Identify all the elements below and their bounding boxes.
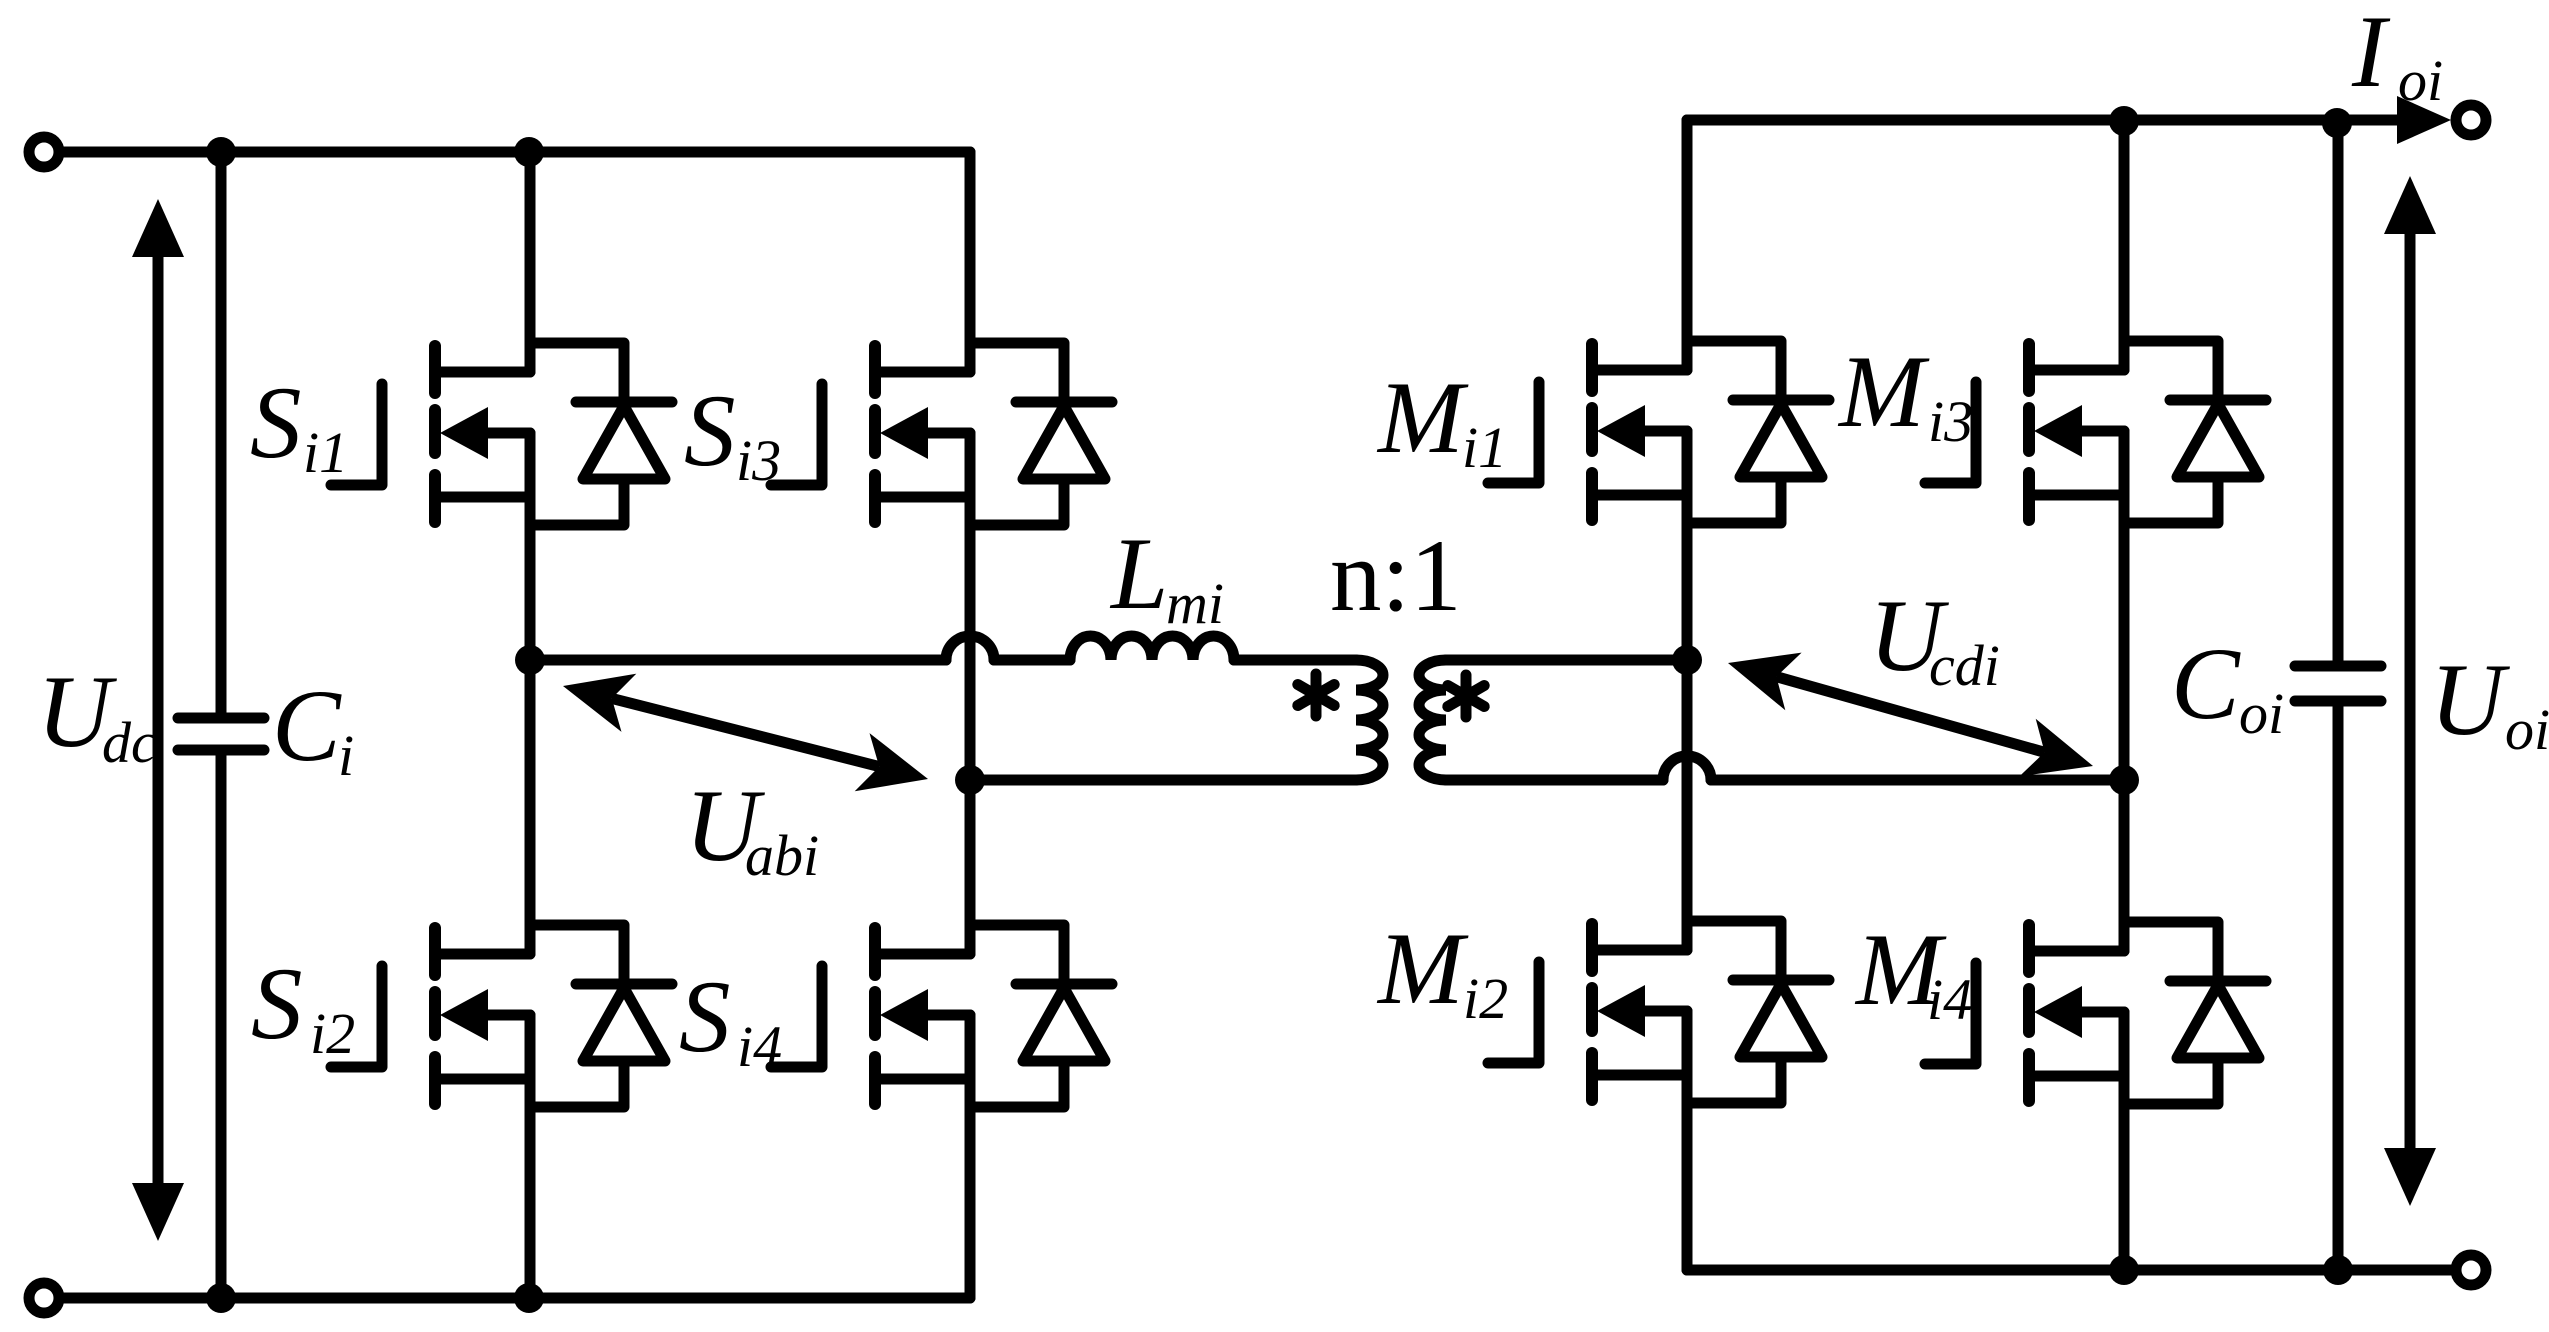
transistor M_i2 (N-MOSFET with body diode)	[1488, 921, 1829, 1103]
svg-text:oi: oi	[2398, 48, 2443, 113]
node junction dot bottom rail / Ci column	[206, 1283, 236, 1313]
transistor S_i3 (N-MOSFET with body diode)	[771, 343, 1112, 525]
label L_mi	[1109, 517, 1224, 636]
wire top rail right	[1687, 115, 2397, 126]
svg-text:oi: oi	[2505, 697, 2549, 762]
transistor M_i1 (N-MOSFET with body diode)	[1488, 341, 1829, 523]
transistor S_i1 (N-MOSFET with body diode)	[331, 343, 672, 525]
svg-text:L: L	[1109, 517, 1168, 631]
svg-text:S: S	[250, 366, 302, 480]
svg-text:mi: mi	[1166, 571, 1224, 636]
transformer primary winding	[1356, 660, 1383, 780]
arrow U_dc voltage (double-headed)	[153, 253, 164, 1187]
transformer primary polarity dot (*)	[1298, 674, 1334, 716]
label M_i2	[1376, 912, 1508, 1031]
svg-text:I: I	[2351, 0, 2391, 109]
inductor L_mi	[1070, 636, 1234, 660]
transistor S_i2 (N-MOSFET with body diode)	[331, 925, 672, 1107]
capacitor C_i	[216, 152, 227, 713]
capacitor C_oi	[2333, 120, 2344, 661]
arrow U_abi voltage (double-headed diagonal)	[563, 674, 636, 732]
node junction dot top rail / C_oi column	[2322, 108, 2352, 138]
node junction dot top rail / leg M_i3	[2109, 106, 2139, 136]
wire leg 2 right bridge (x=2124)	[2119, 120, 2130, 370]
wire bottom rail right	[1687, 1265, 2452, 1276]
label U_dc	[37, 655, 157, 775]
output terminal top-right	[2456, 105, 2486, 135]
wire hop over right leg 1	[1663, 756, 1711, 780]
svg-text:oi: oi	[2239, 681, 2284, 746]
node junction dot bottom rail / leg S_i2	[514, 1283, 544, 1313]
wire node B to transformer primary bottom	[970, 775, 1356, 786]
label C_i	[272, 669, 354, 788]
svg-text:i: i	[338, 723, 354, 788]
label U_oi	[2430, 643, 2549, 762]
svg-text:M: M	[1376, 912, 1469, 1026]
wire transformer secondary top to node c	[1446, 655, 1687, 666]
wire secondary bottom to node d (hops over leg 1)	[1446, 775, 1663, 786]
node A (midpoint leg 1)	[515, 645, 545, 675]
svg-text:S: S	[684, 374, 736, 488]
label S_i1	[250, 366, 348, 485]
node junction dot top rail / Ci column	[206, 137, 236, 167]
label I_oi	[2351, 0, 2443, 113]
svg-text:cdi: cdi	[1929, 633, 2000, 698]
arrow I_oi output current	[2397, 96, 2451, 144]
svg-text:U: U	[2430, 643, 2510, 757]
svg-text:i1: i1	[303, 420, 348, 485]
transistor S_i4 (N-MOSFET with body diode)	[771, 925, 1112, 1107]
node junction dot top rail / leg S_i1	[514, 137, 544, 167]
svg-text:C: C	[272, 669, 342, 783]
svg-text:i4: i4	[1927, 967, 1972, 1032]
wire leg 1 right bridge (x=1687)	[1682, 120, 1693, 370]
node d (midpoint right leg 2)	[2109, 765, 2139, 795]
arrow U_oi voltage (double-headed)	[2405, 230, 2416, 1152]
wire leg 1 left bridge (x=530)	[525, 152, 536, 372]
wire hop over leg 2	[946, 636, 994, 660]
svg-text:i4: i4	[737, 1014, 782, 1079]
label M_i4	[1854, 913, 1972, 1032]
input terminal bottom-left	[29, 1283, 59, 1313]
svg-text:i3: i3	[1928, 389, 1973, 454]
label S_i4	[679, 960, 782, 1079]
label U_cdi	[1869, 579, 2000, 698]
label U_abi	[685, 769, 819, 888]
node junction dot bottom rail / C_oi column	[2323, 1255, 2353, 1285]
wire top rail left	[63, 147, 970, 158]
svg-text:abi: abi	[745, 823, 819, 888]
svg-text:M: M	[1837, 335, 1930, 449]
transformer secondary winding	[1419, 660, 1446, 780]
label M_i3	[1837, 335, 1973, 454]
svg-text:i2: i2	[310, 1001, 355, 1066]
svg-text:C: C	[2171, 627, 2241, 741]
svg-text:M: M	[1376, 361, 1469, 475]
label S_i3	[684, 374, 781, 493]
label M_i1	[1376, 361, 1507, 480]
svg-text:S: S	[679, 960, 731, 1074]
label C_oi	[2171, 627, 2284, 746]
node junction dot bottom rail / leg M_i4	[2109, 1255, 2139, 1285]
node c (midpoint right leg 1)	[1672, 645, 1702, 675]
svg-text:i1: i1	[1462, 415, 1507, 480]
transistor M_i3 (N-MOSFET with body diode)	[1925, 341, 2266, 523]
wire node A to inductor (hops over leg 2)	[530, 655, 946, 666]
svg-text:S: S	[251, 947, 303, 1061]
svg-text:i3: i3	[736, 428, 781, 493]
svg-text:i2: i2	[1463, 966, 1508, 1031]
node B (midpoint leg 2)	[955, 765, 985, 795]
svg-text:dc: dc	[102, 710, 157, 775]
transformer secondary polarity dot (*)	[1448, 675, 1484, 717]
wire leg 2 left bridge (x=970)	[965, 152, 976, 372]
svg-text:n:1: n:1	[1330, 519, 1462, 633]
arrow U_cdi voltage (double-headed diagonal)	[1728, 653, 1802, 711]
input terminal top-left	[29, 137, 59, 167]
label S_i2	[251, 947, 355, 1066]
output terminal bottom-right	[2456, 1255, 2486, 1285]
wire bottom rail left	[63, 1293, 970, 1304]
transistor M_i4 (N-MOSFET with body diode)	[1925, 922, 2266, 1104]
